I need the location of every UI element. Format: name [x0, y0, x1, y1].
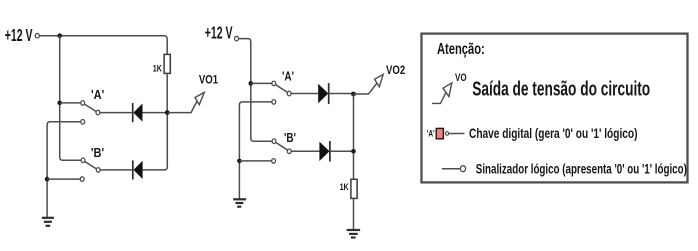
svg-text:Atenção:: Atenção: — [437, 40, 485, 57]
wire branch to switch B lower contact — [47, 178, 80, 180]
legend chave digital icon red square — [436, 128, 443, 138]
legend arrow VO icon — [432, 83, 452, 104]
svg-text:Sinalizador lógico (apresenta: Sinalizador lógico (apresenta '0' ou '1'… — [476, 161, 687, 177]
svg-text:'A': 'A' — [282, 71, 294, 84]
wire switch A common to diode A (right circuit) — [291, 93, 318, 95]
wire +12V rail (right circuit) down to switch B upper contact — [239, 39, 273, 142]
wire switch A lower contact to ground rail — [47, 122, 81, 217]
legend sinalizador icon wire — [442, 168, 460, 170]
svg-text:'B': 'B' — [284, 132, 296, 145]
svg-text:1K: 1K — [340, 181, 349, 192]
node VO2 output junction — [351, 92, 356, 97]
diode D3 (right circuit, switch A) — [318, 83, 353, 104]
node VO1 output junction — [165, 110, 170, 115]
diode D2 (left circuit, switch B) — [133, 113, 168, 180]
wire top rail left circuit — [40, 36, 168, 55]
terminal +12V (left circuit) — [35, 33, 39, 38]
legend sinalizador icon circle — [460, 166, 465, 172]
diode D4 (right circuit, switch B) — [319, 141, 353, 162]
svg-text:Chave digital (gera '0' ou '1': Chave digital (gera '0' ou '1' lógico) — [469, 125, 637, 141]
svg-text:+12 V: +12 V — [5, 26, 33, 45]
wire switch A lower contact to ground rail (right circuit) — [239, 102, 272, 199]
resistor R1 1K (left circuit) — [164, 54, 170, 112]
wire +12V rail down to switch B upper contact — [60, 36, 81, 161]
wire switch B common to diode B (right circuit) — [291, 150, 319, 152]
svg-text:Saída de tensão do circuito: Saída de tensão do circuito — [472, 77, 650, 100]
wire output to VO1 arrow — [167, 101, 197, 113]
arrow VO2 output symbol — [375, 74, 384, 86]
junction +12V rail at switch A — [57, 101, 62, 106]
junction top rail / +12V rail — [57, 33, 62, 38]
legend chave digital icon wire — [449, 133, 465, 135]
terminal +12V (right circuit) — [235, 36, 239, 41]
diode D1 (left circuit, switch A) — [133, 103, 168, 122]
wire switch A common to diode A — [100, 112, 132, 114]
svg-text:'B': 'B' — [91, 145, 104, 160]
switch A (right circuit) — [272, 81, 291, 104]
wire switch B common to diode B — [100, 169, 132, 171]
legend chave digital icon terminal — [446, 132, 449, 136]
svg-text:'A': 'A' — [427, 128, 435, 138]
switch A (left circuit) — [81, 101, 100, 125]
junction ground rail at switch B (right circuit) — [237, 159, 242, 164]
junction +12V rail at switch A (right circuit) — [249, 81, 254, 86]
ground (left circuit) — [42, 218, 54, 226]
resistor R2 1K (right circuit) — [351, 179, 357, 229]
svg-text:VO2: VO2 — [386, 64, 405, 77]
switch B (right circuit) — [272, 139, 291, 163]
junction ground rail at switch B — [45, 177, 50, 182]
ground (right circuit, left leg) — [233, 199, 246, 206]
svg-text:VO: VO — [455, 72, 467, 85]
junction output rail at diode B (right circuit) — [351, 149, 356, 154]
ground (right circuit, output leg) — [347, 230, 361, 238]
svg-text:'A': 'A' — [91, 87, 104, 102]
wire output to VO2 arrow — [354, 83, 377, 94]
wire branch to switch A upper contact — [60, 102, 81, 104]
svg-text:1K: 1K — [153, 63, 162, 74]
wire branch to switch B lower contact (right circuit) — [239, 160, 271, 162]
wire output rail down to resistor (right circuit) — [353, 94, 355, 179]
legend frame — [422, 34, 688, 183]
wire branch to switch A upper contact (right circuit) — [251, 82, 272, 84]
svg-text:+12 V: +12 V — [205, 24, 233, 43]
arrow VO1 output symbol — [195, 92, 204, 104]
switch B (left circuit) — [80, 158, 100, 181]
svg-text:VO1: VO1 — [199, 74, 218, 87]
